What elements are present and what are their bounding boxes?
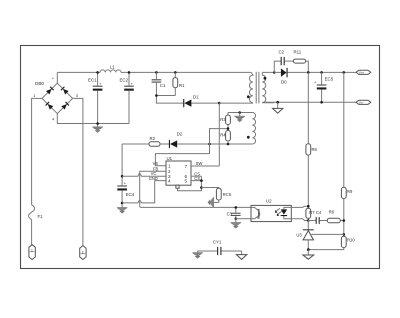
capacitor C2 — [279, 50, 285, 66]
diode D1 — [183, 95, 199, 108]
transformer T1 primary winding — [249, 72, 252, 103]
svg-text:F1: F1 — [38, 214, 44, 219]
svg-text:C4: C4 — [316, 210, 322, 215]
svg-text:D0: D0 — [281, 80, 287, 85]
svg-text:DB0: DB0 — [35, 81, 44, 86]
wire R11 to rail — [306, 61, 309, 72]
wire R10 bottom — [308, 248, 344, 250]
node snubber junction — [273, 71, 276, 74]
connector Vo+ — [356, 70, 371, 75]
wire SW node to primary bottom — [219, 102, 253, 104]
pin label CS pin6 — [194, 171, 200, 176]
bridge rectifier DB0 — [33, 76, 79, 122]
wire pin7 SW — [191, 165, 219, 167]
svg-text:+: + — [131, 81, 134, 86]
wire D2 to aux winding bottom — [177, 143, 252, 145]
node EC5 bottom — [320, 101, 323, 104]
diode D0 — [274, 68, 287, 85]
ground aux chevron — [235, 111, 245, 122]
svg-text:R2: R2 — [150, 136, 156, 141]
capacitor C3 — [227, 207, 241, 218]
wire C3 bottom to U2 — [236, 218, 251, 220]
svg-text:L1: L1 — [110, 65, 115, 70]
node R7 top — [307, 205, 310, 208]
resistor R4 — [220, 131, 230, 145]
node R7 bottom — [307, 218, 310, 221]
svg-text:C2: C2 — [279, 50, 285, 55]
svg-text:Vo-: Vo- — [359, 101, 364, 105]
svg-text:+: + — [314, 79, 317, 84]
svg-text:R8: R8 — [329, 210, 335, 215]
resistor R7 — [306, 208, 315, 218]
resistor R9 — [341, 187, 353, 198]
pin label VC — [151, 171, 157, 176]
wire bridge right to connector 2 — [73, 98, 83, 245]
capacitor EC1 — [88, 72, 102, 123]
pin label SW — [196, 161, 203, 166]
svg-text:R4: R4 — [220, 132, 226, 137]
wire C1 R1 bottoms — [155, 94, 183, 103]
wire VC node riser — [122, 143, 149, 145]
wire VC main line — [121, 144, 123, 206]
pin label VS — [153, 161, 159, 166]
node VC taps — [121, 175, 124, 204]
pin label CS pin5 — [194, 176, 200, 181]
resistor R8 — [327, 210, 340, 223]
wire pin6 — [191, 175, 201, 177]
svg-text:D2: D2 — [177, 131, 183, 136]
wire bridge bottom to ground bus — [57, 114, 129, 124]
svg-text:RCS: RCS — [223, 192, 232, 197]
wire VC to pin3 with hop — [122, 174, 166, 176]
transformer secondary winding — [262, 72, 274, 102]
svg-text:EC2: EC2 — [120, 77, 129, 82]
wire snubber riser left — [274, 61, 281, 72]
wire bridge left to AC line — [32, 98, 42, 204]
node rail dots — [307, 71, 345, 74]
ground U3 triangle — [303, 250, 314, 260]
svg-text:7: 7 — [185, 164, 188, 169]
wire C2 to R11 — [285, 60, 294, 62]
wire bridge top to rail — [56, 72, 58, 83]
resistor R6 — [306, 144, 318, 155]
wire aux top — [228, 112, 252, 114]
node D2 line junction — [208, 143, 211, 146]
wire R6 to R7 — [307, 155, 309, 208]
svg-text:4: 4 — [52, 116, 55, 121]
svg-text:5: 5 — [185, 179, 188, 184]
ground arrow RCS — [208, 197, 213, 207]
node CS junctions — [200, 179, 203, 189]
svg-text:C3: C3 — [227, 211, 233, 216]
wire pin8 bottom — [178, 188, 202, 191]
pin label GND — [149, 176, 158, 181]
inductor L1 — [100, 65, 121, 73]
svg-text:1: 1 — [33, 93, 36, 98]
capacitor EC2 — [120, 72, 134, 123]
capacitor C4 — [308, 210, 322, 224]
transformer aux winding — [247, 113, 256, 145]
svg-text:R11: R11 — [294, 50, 302, 55]
svg-text:+: + — [124, 180, 127, 185]
svg-text:U1: U1 — [167, 156, 173, 161]
svg-text:4: 4 — [168, 179, 171, 184]
ground EC4 chevron — [117, 206, 127, 213]
wire top rail left — [57, 71, 100, 73]
wire R8 to divider — [340, 220, 344, 222]
transformer phase dots — [247, 77, 266, 98]
capacitor C1 — [152, 72, 166, 95]
wire divider to VS — [155, 129, 228, 166]
capacitor EC4 — [117, 180, 134, 197]
node SW junction — [218, 102, 221, 105]
svg-text:R3: R3 — [220, 117, 226, 122]
junction dots top rail — [96, 71, 176, 125]
wire top rail to transformer — [121, 71, 251, 73]
wire D1 to SW node — [191, 102, 219, 104]
resistor R2 — [149, 136, 160, 146]
wire FB net — [140, 171, 251, 207]
wire R6 line — [307, 72, 309, 143]
wire CS to RCS — [201, 187, 218, 190]
diode D2 — [169, 131, 183, 148]
resistor R11 — [293, 50, 305, 64]
svg-text:+: + — [99, 81, 102, 86]
ground primary bus — [92, 124, 102, 133]
svg-text:R1: R1 — [179, 83, 185, 88]
resistor R10 — [341, 236, 355, 247]
wire R9 to R10 — [343, 199, 345, 237]
wire GND to pin4 with hop — [122, 181, 166, 203]
fuse F1 — [29, 205, 44, 220]
svg-text:R9: R9 — [347, 189, 353, 194]
svg-text:R7: R7 — [309, 210, 315, 215]
svg-text:CY1: CY1 — [213, 240, 222, 245]
svg-text:U2: U2 — [266, 198, 272, 203]
wire fuse to connector 1 — [31, 220, 33, 245]
svg-text:3: 3 — [76, 93, 79, 98]
capacitor CY1 — [198, 240, 242, 256]
wire RCS bottom — [213, 200, 218, 202]
svg-text:SW: SW — [196, 161, 203, 166]
ground CY1 right triangle — [236, 251, 246, 259]
node U3 anode — [307, 248, 310, 251]
op-amp U1 controller — [166, 156, 191, 188]
pin label FB — [153, 167, 159, 172]
ground C3 chevron — [231, 219, 241, 228]
capacitor EC5 — [314, 72, 334, 102]
resistor R3 — [220, 113, 230, 131]
node C3 taps — [235, 206, 238, 220]
wire opto anode to R7 — [291, 206, 308, 207]
ground secondary triangle — [273, 101, 283, 113]
wire opto cathode to R7 bottom — [291, 219, 308, 221]
optocoupler U2 — [251, 198, 291, 221]
svg-text:+: + — [52, 76, 55, 81]
node divider junctions — [227, 127, 230, 145]
connector Vo- — [356, 100, 371, 105]
wire C4 to R8 — [320, 220, 328, 222]
transformer core — [256, 72, 259, 104]
border frame — [21, 46, 380, 269]
svg-text:EC1: EC1 — [88, 77, 97, 82]
shunt regulator U3 — [296, 221, 343, 250]
svg-text:1: 1 — [168, 164, 171, 169]
connector 2 — [80, 246, 86, 260]
wire R2 to D2 — [160, 143, 169, 145]
svg-text:R10: R10 — [347, 237, 355, 242]
svg-text:Vo+: Vo+ — [359, 71, 365, 75]
wire secondary bottom rail Vo- — [262, 101, 356, 103]
resistor RCS — [216, 188, 231, 200]
connector 1 — [29, 245, 35, 260]
wire pin5 — [191, 176, 201, 187]
svg-text:D1: D1 — [193, 95, 199, 100]
svg-text:2: 2 — [82, 250, 84, 254]
node divider feedback — [343, 219, 346, 236]
wire output rail Vo+ — [288, 71, 356, 73]
wire SW vertical to pin7 — [218, 103, 220, 166]
svg-text:EC5: EC5 — [325, 77, 334, 82]
svg-text:VS: VS — [153, 161, 159, 166]
wire R9 line — [343, 72, 345, 187]
svg-text:C1: C1 — [160, 83, 166, 88]
resistor R1 — [173, 72, 185, 95]
svg-text:R6: R6 — [312, 147, 318, 152]
ground CY1 left chevron — [192, 251, 202, 258]
svg-text:EC4: EC4 — [126, 192, 135, 197]
svg-text:U3: U3 — [296, 233, 302, 238]
svg-text:1: 1 — [31, 248, 33, 252]
